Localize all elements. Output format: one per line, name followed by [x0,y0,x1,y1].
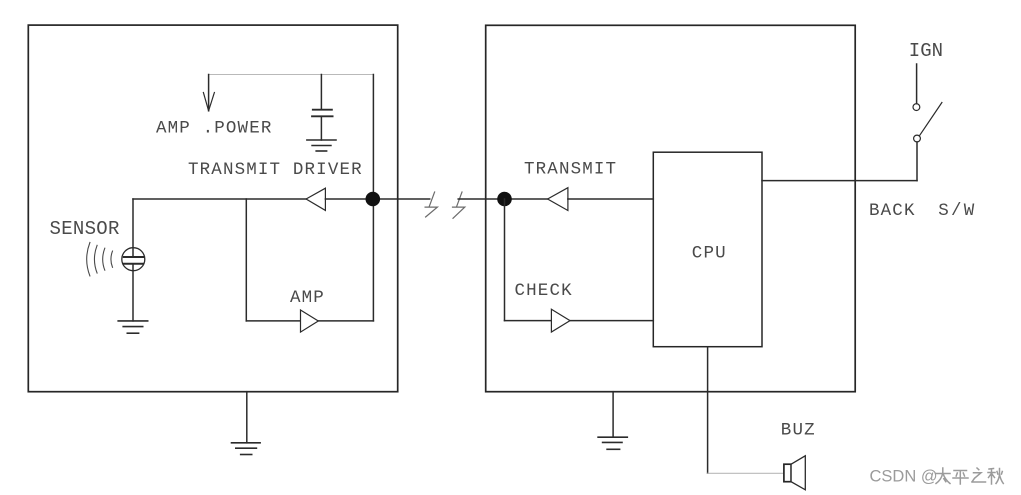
ground under sensor [118,321,148,333]
break symbol 1 [425,192,437,217]
CPU U1 box [653,152,762,347]
wire check to CPU [570,320,653,322]
back switch upper contact [913,104,920,111]
ground under left box [232,443,261,455]
wire switch lower lead [916,142,918,181]
buzzer BZ1 cone [791,456,805,490]
wire sensor lower lead [132,264,134,321]
wire driver to junction [325,198,429,200]
ECU enclosure box [486,25,856,391]
svg-text:BACK: BACK [869,201,916,221]
capacitor C1 plates [312,110,333,117]
ground under capacitor [307,140,336,151]
wire AMP input [246,320,300,322]
op-amp AMP buffer triangle [301,310,319,332]
watermark chinese characters [936,468,1004,484]
ground lead right box [612,392,614,438]
wire IGN lead [916,64,918,104]
ground lead left box [246,392,248,443]
wire buzzer horizontal (thin) [708,472,784,474]
AMP POWER arrow stem [208,75,210,111]
svg-text:IGN: IGN [909,40,943,62]
wire branch vertical at node [245,199,247,321]
svg-text:S/W: S/W [938,201,976,221]
wire receiver to CPU [568,198,653,200]
back switch blade [920,103,942,136]
wire sensor to node [132,199,134,256]
capacitor C1 top lead [320,75,322,110]
power rail wire (thin) [209,74,374,76]
buzzer BZ1 body [784,464,791,482]
svg-text:SENSOR: SENSOR [50,218,120,240]
AMP POWER arrowhead [203,93,214,111]
svg-text:CPU: CPU [692,243,727,263]
svg-text:AMP: AMP [290,288,325,308]
transmit receiver buffer triangle [548,188,568,211]
sensor element SE1 circle [122,248,145,271]
wire AMP output [318,320,373,322]
svg-text:TRANSMIT: TRANSMIT [524,159,617,179]
svg-text:BUZ: BUZ [781,420,816,440]
svg-text:AMP .POWER: AMP .POWER [156,118,273,138]
svg-text:TRANSMIT DRIVER: TRANSMIT DRIVER [188,160,363,180]
wire CPU to back switch [762,180,917,182]
sensor unit enclosure box [28,25,397,392]
junction node B dot [497,192,512,207]
wire feedback vertical [372,75,374,321]
break symbol 2 [453,192,465,218]
wire check horizontal [505,320,552,322]
svg-text:CSDN @: CSDN @ [870,468,938,486]
transmit driver buffer triangle [306,188,325,210]
capacitor C1 bottom lead [320,116,322,140]
junction node A dot [366,192,381,207]
wire check branch vertical [504,199,506,321]
wire sensor row horizontal [133,198,306,200]
wire into ECU [458,198,547,200]
sensor wave arcs [87,243,113,276]
sensor element plates [124,257,143,264]
check buffer triangle [551,309,570,332]
svg-text:CHECK: CHECK [515,281,573,301]
wire CPU to buzzer vertical [707,347,709,473]
back switch lower contact [914,135,921,142]
ground under right box [598,437,627,449]
